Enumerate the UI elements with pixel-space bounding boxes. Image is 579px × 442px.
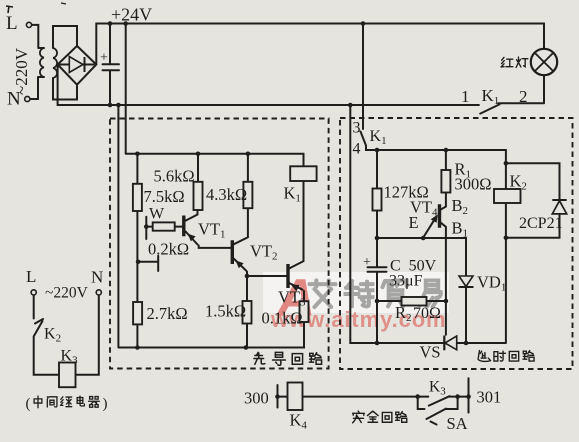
svg-text:~220V: ~220V bbox=[45, 285, 89, 302]
svg-text:300: 300 bbox=[244, 389, 269, 408]
svg-text:E: E bbox=[409, 213, 419, 232]
svg-text:1: 1 bbox=[461, 87, 470, 106]
svg-text:(: ( bbox=[26, 396, 31, 412]
svg-text:301: 301 bbox=[477, 388, 502, 407]
svg-text:2: 2 bbox=[519, 87, 528, 106]
svg-text:): ) bbox=[103, 396, 108, 412]
svg-text:+24V: +24V bbox=[111, 5, 152, 25]
svg-text:0.2kΩ: 0.2kΩ bbox=[148, 240, 189, 259]
svg-text:L: L bbox=[26, 267, 36, 286]
svg-text:70Ω: 70Ω bbox=[413, 305, 441, 322]
svg-text:1.5kΩ: 1.5kΩ bbox=[205, 302, 246, 321]
svg-text:33μF: 33μF bbox=[389, 273, 423, 290]
svg-text:3: 3 bbox=[353, 120, 361, 137]
svg-text:300Ω: 300Ω bbox=[455, 175, 492, 194]
svg-text:N: N bbox=[7, 89, 21, 110]
svg-text:+: + bbox=[100, 51, 108, 66]
svg-text:2CP21: 2CP21 bbox=[519, 215, 563, 232]
svg-text:N: N bbox=[91, 268, 103, 287]
svg-text:+: + bbox=[363, 255, 371, 270]
svg-text:2.7kΩ: 2.7kΩ bbox=[147, 304, 188, 323]
svg-text:4.3kΩ: 4.3kΩ bbox=[206, 185, 247, 204]
svg-text:L: L bbox=[6, 13, 18, 34]
svg-text:VS: VS bbox=[420, 343, 441, 362]
svg-text:4: 4 bbox=[353, 141, 361, 158]
svg-text:SA: SA bbox=[447, 414, 468, 433]
svg-text:5.6kΩ: 5.6kΩ bbox=[154, 167, 195, 186]
svg-text:7.5kΩ: 7.5kΩ bbox=[144, 187, 185, 206]
svg-text:W: W bbox=[149, 206, 165, 223]
svg-text:0.1kΩ: 0.1kΩ bbox=[262, 309, 303, 328]
